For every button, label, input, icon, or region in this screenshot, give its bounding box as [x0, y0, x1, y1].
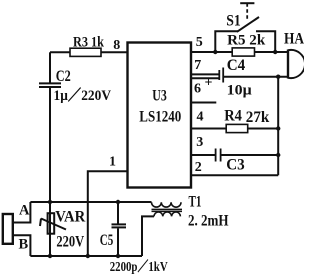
svg-text:3: 3: [196, 135, 203, 150]
junction S1 right / pin5 wire: [273, 50, 277, 54]
svg-text:1μ／220V: 1μ／220V: [54, 86, 112, 104]
svg-text:27k: 27k: [246, 109, 270, 126]
junction top rail / C5 branch: [116, 200, 120, 204]
switch S1 contacts: [215, 31, 275, 52]
svg-text:R3 1k: R3 1k: [73, 35, 105, 51]
junction bottom rail / pin1 branch: [86, 254, 90, 258]
svg-text:10μ: 10μ: [227, 83, 253, 99]
wire C4 to speaker: [223, 76, 288, 78]
wire right rail: [277, 77, 279, 176]
svg-text:T1: T1: [189, 194, 202, 211]
svg-text:2. 2mH: 2. 2mH: [188, 213, 229, 230]
varistor VAR diagonal: [40, 219, 66, 230]
inductor T1 core: [152, 209, 183, 211]
svg-text:LS1240: LS1240: [139, 109, 181, 126]
wire top rail: [30, 201, 151, 203]
varistor VAR body: [48, 213, 55, 234]
junction top rail / VAR branch: [48, 200, 52, 204]
svg-text:HA: HA: [284, 31, 304, 48]
wire terminal A: [13, 202, 31, 223]
switch S1 actuator: [240, 2, 254, 4]
wire terminal B: [13, 235, 31, 256]
wire bottom rail: [30, 255, 142, 257]
svg-text:C4: C4: [227, 57, 246, 74]
junction S1 left / pin5 wire: [213, 50, 217, 54]
junction right rail / C3 wire: [276, 153, 280, 157]
junction bottom rail / C5 branch: [116, 254, 120, 258]
svg-text:C3: C3: [226, 157, 245, 174]
junction right rail / speaker wire: [276, 75, 280, 79]
wire pin8: [50, 51, 127, 53]
wire pin1: [88, 171, 127, 256]
svg-text:S1: S1: [226, 13, 241, 30]
svg-text:U3: U3: [152, 87, 167, 104]
svg-text:C2: C2: [56, 68, 71, 85]
svg-text:B: B: [19, 236, 29, 252]
wire pin5: [191, 51, 288, 53]
IC U3 LS1240: [128, 43, 192, 188]
terminal block A/B: [3, 214, 13, 244]
varistor VAR wire: [49, 202, 51, 256]
resistor R4: [226, 124, 248, 132]
wire pin7: [191, 73, 219, 75]
svg-text:R4: R4: [224, 108, 242, 125]
junction bottom rail / VAR branch: [48, 254, 52, 258]
wire pin4: [191, 128, 278, 130]
resistor R3: [70, 48, 101, 56]
wire pin6 stub: [191, 102, 216, 104]
capacitor C2: [49, 52, 51, 82]
svg-text:VAR: VAR: [55, 209, 86, 226]
svg-text:+: +: [205, 76, 213, 91]
svg-text:6: 6: [194, 82, 201, 97]
svg-text:7: 7: [194, 58, 201, 73]
svg-text:8: 8: [113, 38, 120, 53]
wire pin3: [191, 154, 278, 156]
wire pin2: [191, 174, 278, 176]
svg-text:5: 5: [196, 35, 203, 50]
switch S1 lever: [237, 17, 259, 32]
junction right rail / R4 wire: [276, 126, 280, 130]
speaker HA: [287, 50, 289, 79]
svg-text:R5 2k: R5 2k: [227, 33, 266, 49]
svg-text:220V: 220V: [56, 234, 84, 251]
svg-text:C5: C5: [100, 232, 114, 249]
capacitor C5: [117, 202, 119, 224]
svg-text:2200p／1kV: 2200p／1kV: [110, 259, 168, 274]
resistor R5: [232, 48, 254, 56]
capacitor C4: [218, 70, 220, 80]
svg-text:4: 4: [197, 110, 204, 125]
capacitor C3: [215, 149, 217, 162]
wire pin6: [191, 77, 219, 79]
inductor T1 top winding: [152, 202, 182, 207]
wire T1 bottom lead: [142, 216, 154, 256]
inductor T1 bottom winding: [154, 212, 180, 216]
svg-text:1: 1: [109, 155, 116, 170]
svg-text:A: A: [19, 203, 30, 219]
svg-text:2: 2: [195, 160, 202, 175]
